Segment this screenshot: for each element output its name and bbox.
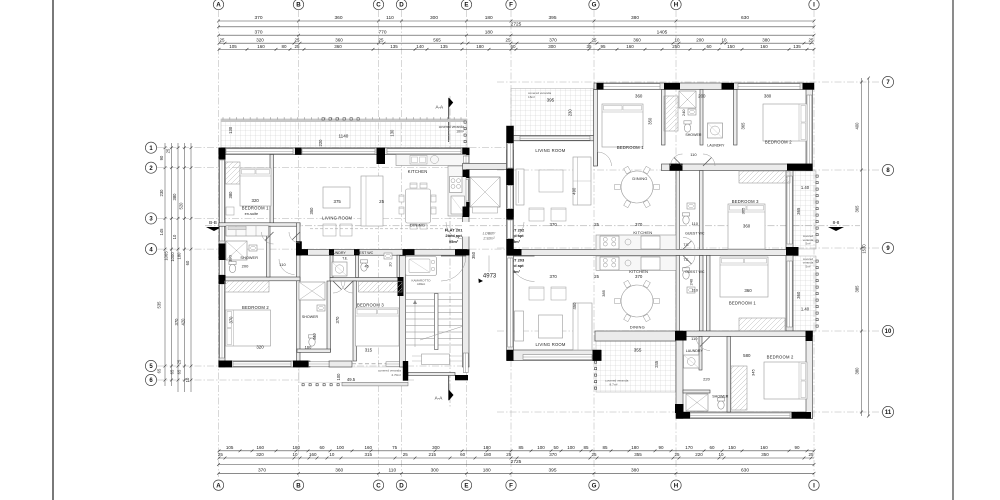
svg-text:35: 35 — [586, 44, 592, 49]
svg-text:60: 60 — [706, 44, 712, 49]
svg-text:360: 360 — [635, 93, 643, 98]
svg-text:360: 360 — [633, 37, 641, 42]
svg-text:LOBBY: LOBBY — [483, 232, 496, 236]
svg-text:BEDROOM 2: BEDROOM 2 — [242, 305, 269, 310]
svg-text:180: 180 — [631, 445, 639, 450]
svg-text:100: 100 — [537, 445, 545, 450]
svg-text:395: 395 — [548, 15, 556, 21]
svg-text:LIVING ROOM: LIVING ROOM — [535, 148, 565, 153]
svg-text:130: 130 — [228, 126, 233, 134]
svg-text:GUEST WC: GUEST WC — [685, 270, 705, 274]
svg-text:230: 230 — [159, 189, 164, 197]
svg-text:170: 170 — [685, 445, 693, 450]
svg-text:95m²: 95m² — [449, 239, 459, 244]
svg-text:370: 370 — [549, 37, 557, 42]
svg-text:90: 90 — [159, 155, 164, 160]
svg-text:380: 380 — [228, 191, 233, 199]
svg-text:A-A: A-A — [435, 104, 444, 109]
svg-text:H: H — [674, 482, 679, 489]
svg-text:300: 300 — [432, 445, 440, 450]
svg-text:245: 245 — [654, 360, 659, 368]
svg-text:565: 565 — [433, 37, 441, 42]
svg-text:SHOWER: SHOWER — [302, 315, 319, 319]
svg-text:18m²: 18m² — [456, 129, 465, 133]
svg-text:520: 520 — [179, 202, 184, 210]
svg-text:100: 100 — [567, 445, 575, 450]
svg-text:DINING: DINING — [632, 176, 647, 181]
svg-text:25: 25 — [294, 44, 300, 49]
svg-text:SHOWER: SHOWER — [685, 133, 702, 137]
svg-text:360: 360 — [334, 15, 342, 21]
svg-text:365: 365 — [741, 122, 746, 130]
svg-text:DINING: DINING — [410, 222, 425, 227]
svg-text:1140: 1140 — [338, 134, 348, 139]
svg-text:D: D — [399, 2, 404, 9]
svg-text:150: 150 — [728, 445, 736, 450]
svg-text:380: 380 — [764, 93, 772, 98]
svg-text:95: 95 — [600, 44, 606, 49]
svg-text:25: 25 — [674, 452, 680, 457]
svg-text:16m²: 16m² — [528, 95, 535, 99]
svg-text:360: 360 — [335, 467, 343, 473]
svg-text:350: 350 — [309, 207, 314, 215]
svg-text:580: 580 — [743, 353, 751, 358]
svg-text:315: 315 — [365, 348, 373, 353]
svg-text:145: 145 — [159, 228, 164, 236]
svg-text:25: 25 — [591, 37, 597, 42]
svg-text:200: 200 — [698, 93, 706, 98]
svg-text:GUEST WC: GUEST WC — [354, 251, 374, 255]
svg-text:E: E — [464, 482, 468, 489]
svg-text:SHOWER: SHOWER — [240, 256, 258, 260]
svg-text:BEDROOM 1: BEDROOM 1 — [729, 301, 756, 306]
svg-text:360: 360 — [796, 291, 801, 299]
svg-text:220: 220 — [703, 376, 710, 381]
svg-text:200: 200 — [242, 264, 249, 269]
svg-text:8-8: 8-8 — [833, 220, 840, 225]
svg-text:350: 350 — [647, 117, 652, 125]
svg-text:370: 370 — [254, 29, 262, 35]
svg-text:10: 10 — [674, 37, 680, 42]
svg-text:110: 110 — [692, 221, 699, 226]
svg-text:160: 160 — [257, 445, 265, 450]
svg-text:10: 10 — [292, 452, 298, 457]
svg-text:1000: 1000 — [170, 252, 175, 262]
svg-text:130: 130 — [389, 129, 394, 137]
svg-text:110: 110 — [279, 262, 286, 267]
svg-text:350: 350 — [761, 452, 769, 457]
svg-text:I: I — [813, 2, 815, 9]
svg-text:85: 85 — [583, 445, 589, 450]
svg-text:KITCHEN: KITCHEN — [408, 169, 428, 174]
svg-text:360: 360 — [743, 224, 751, 229]
svg-text:380: 380 — [631, 15, 639, 21]
svg-text:20: 20 — [389, 262, 393, 266]
svg-text:250: 250 — [672, 44, 680, 49]
svg-text:2bed apt: 2bed apt — [445, 233, 462, 238]
svg-text:85: 85 — [602, 445, 608, 450]
svg-text:5m²: 5m² — [806, 242, 811, 246]
svg-text:105: 105 — [229, 44, 237, 49]
svg-text:380: 380 — [855, 367, 860, 375]
svg-text:10: 10 — [721, 37, 727, 42]
svg-text:365: 365 — [796, 207, 801, 215]
svg-text:25: 25 — [591, 452, 597, 457]
svg-text:C: C — [376, 2, 381, 9]
svg-text:45: 45 — [364, 265, 368, 269]
svg-text:345: 345 — [751, 368, 756, 375]
svg-text:180: 180 — [293, 445, 301, 450]
svg-text:BEDROOM 1: BEDROOM 1 — [242, 205, 269, 210]
svg-text:90: 90 — [794, 445, 800, 450]
svg-text:630: 630 — [741, 15, 749, 21]
svg-text:160: 160 — [364, 445, 372, 450]
svg-text:G: G — [592, 482, 597, 489]
svg-text:180: 180 — [483, 467, 491, 473]
svg-text:49.5: 49.5 — [347, 377, 356, 382]
svg-text:BEDROOM 2: BEDROOM 2 — [765, 140, 792, 145]
svg-text:25: 25 — [294, 37, 300, 42]
svg-text:395: 395 — [548, 467, 556, 473]
svg-text:355: 355 — [634, 347, 642, 352]
svg-text:370: 370 — [635, 274, 643, 279]
svg-text:BEDROOM 3: BEDROOM 3 — [357, 303, 384, 308]
svg-text:covered veranda: covered veranda — [439, 125, 464, 129]
svg-text:535: 535 — [157, 301, 162, 309]
svg-text:105: 105 — [226, 445, 234, 450]
svg-text:D: D — [399, 482, 404, 489]
svg-text:220: 220 — [318, 139, 323, 147]
svg-text:100: 100 — [336, 373, 341, 381]
svg-text:25: 25 — [808, 452, 814, 457]
svg-text:DINING: DINING — [630, 324, 645, 329]
svg-text:A: A — [216, 2, 221, 9]
svg-text:230: 230 — [567, 109, 572, 117]
svg-text:4.70m²: 4.70m² — [391, 373, 401, 377]
svg-text:4973: 4973 — [483, 274, 497, 280]
svg-text:370: 370 — [549, 452, 557, 457]
svg-text:E: E — [464, 2, 468, 9]
svg-text:H: H — [674, 2, 679, 9]
svg-text:10: 10 — [172, 234, 177, 239]
svg-text:180: 180 — [228, 254, 233, 261]
svg-text:1530: 1530 — [862, 244, 867, 254]
svg-text:160: 160 — [309, 452, 317, 457]
svg-text:1405: 1405 — [657, 29, 668, 35]
svg-text:F: F — [509, 482, 513, 489]
svg-text:60: 60 — [709, 445, 715, 450]
svg-text:320: 320 — [252, 198, 260, 203]
svg-text:25: 25 — [808, 37, 814, 42]
svg-text:350: 350 — [471, 251, 476, 259]
svg-text:160: 160 — [760, 44, 768, 49]
svg-text:85: 85 — [518, 445, 524, 450]
svg-text:90: 90 — [658, 445, 664, 450]
svg-text:1.40: 1.40 — [801, 185, 810, 190]
svg-text:215: 215 — [428, 452, 436, 457]
svg-text:490: 490 — [572, 187, 577, 195]
svg-text:en-suite: en-suite — [245, 212, 259, 216]
svg-text:FLAT 201: FLAT 201 — [445, 228, 463, 233]
svg-text:150: 150 — [727, 44, 735, 49]
svg-text:300: 300 — [548, 44, 556, 49]
svg-text:BEDROOM 1: BEDROOM 1 — [617, 145, 644, 150]
svg-text:360: 360 — [334, 44, 342, 49]
svg-text:315: 315 — [364, 452, 372, 457]
svg-text:180: 180 — [484, 452, 492, 457]
svg-text:380: 380 — [762, 37, 770, 42]
svg-text:F: F — [509, 2, 513, 9]
svg-text:10: 10 — [885, 329, 892, 335]
svg-text:135: 135 — [793, 44, 801, 49]
svg-text:25: 25 — [378, 37, 384, 42]
svg-text:covered veranda: covered veranda — [378, 369, 401, 373]
svg-text:B-B: B-B — [209, 220, 217, 225]
svg-text:320: 320 — [256, 452, 264, 457]
svg-text:11: 11 — [885, 410, 892, 416]
svg-text:370: 370 — [228, 316, 233, 324]
svg-text:8.7m²: 8.7m² — [610, 383, 618, 387]
svg-text:25: 25 — [379, 199, 384, 204]
svg-text:5m²: 5m² — [806, 264, 811, 268]
svg-text:300: 300 — [430, 15, 438, 21]
svg-text:320: 320 — [256, 345, 264, 350]
svg-text:10: 10 — [718, 452, 724, 457]
svg-text:I: I — [813, 482, 815, 489]
svg-text:25: 25 — [506, 452, 512, 457]
svg-text:BEDROOM 2: BEDROOM 2 — [767, 354, 794, 359]
svg-text:A: A — [216, 482, 221, 489]
svg-text:60: 60 — [319, 445, 325, 450]
svg-text:B: B — [296, 2, 301, 9]
svg-text:2725: 2725 — [511, 21, 522, 27]
svg-text:400: 400 — [855, 122, 860, 130]
svg-text:395: 395 — [547, 98, 555, 103]
svg-text:360: 360 — [335, 37, 343, 42]
svg-text:630: 630 — [741, 467, 749, 473]
svg-text:370: 370 — [550, 222, 558, 227]
svg-text:B: B — [296, 482, 301, 489]
svg-text:110: 110 — [690, 152, 697, 157]
svg-text:385: 385 — [601, 289, 606, 296]
svg-text:200: 200 — [696, 37, 704, 42]
svg-text:AREA: AREA — [417, 282, 425, 286]
svg-text:140: 140 — [416, 44, 424, 49]
svg-text:80: 80 — [281, 44, 287, 49]
svg-text:2725: 2725 — [511, 459, 522, 465]
svg-text:110: 110 — [692, 287, 699, 292]
svg-text:25: 25 — [594, 222, 599, 227]
svg-text:420: 420 — [181, 318, 186, 326]
svg-text:135: 135 — [390, 44, 398, 49]
svg-text:T.E.: T.E. — [342, 257, 348, 261]
svg-text:365: 365 — [855, 205, 860, 213]
svg-text:50: 50 — [553, 445, 559, 450]
svg-text:375: 375 — [334, 199, 342, 204]
svg-text:385: 385 — [855, 285, 860, 293]
svg-text:160: 160 — [257, 44, 265, 49]
svg-text:GUEST WC: GUEST WC — [685, 232, 705, 236]
svg-text:25: 25 — [403, 452, 409, 457]
svg-text:240: 240 — [689, 278, 694, 285]
svg-text:65: 65 — [177, 369, 182, 374]
svg-text:180: 180 — [476, 44, 484, 49]
svg-text:180: 180 — [485, 29, 493, 35]
svg-text:65: 65 — [157, 368, 162, 373]
svg-text:365: 365 — [741, 207, 746, 214]
svg-text:100: 100 — [336, 445, 344, 450]
svg-text:370: 370 — [550, 274, 558, 279]
svg-text:180: 180 — [483, 445, 491, 450]
svg-text:320: 320 — [256, 37, 264, 42]
svg-text:2.92m²: 2.92m² — [482, 237, 495, 241]
svg-text:LAUNDRY: LAUNDRY — [686, 349, 704, 353]
svg-text:240: 240 — [681, 109, 686, 116]
svg-text:355: 355 — [634, 452, 642, 457]
svg-text:BEDROOM 3: BEDROOM 3 — [732, 199, 759, 204]
svg-text:LIVING ROOM: LIVING ROOM — [322, 216, 352, 221]
svg-text:380: 380 — [172, 193, 177, 201]
svg-text:C: C — [376, 482, 381, 489]
svg-text:25: 25 — [218, 452, 224, 457]
svg-text:380: 380 — [631, 467, 639, 473]
svg-text:360: 360 — [744, 288, 752, 293]
svg-text:75: 75 — [392, 445, 398, 450]
svg-text:25: 25 — [177, 359, 182, 364]
svg-text:60: 60 — [185, 260, 190, 265]
svg-text:SHOWER: SHOWER — [712, 394, 729, 398]
svg-text:300: 300 — [431, 467, 439, 473]
svg-text:25: 25 — [219, 37, 225, 42]
svg-text:1065: 1065 — [164, 251, 169, 261]
svg-text:160: 160 — [305, 345, 312, 350]
svg-text:60: 60 — [460, 452, 466, 457]
svg-text:110: 110 — [386, 15, 394, 21]
svg-text:770: 770 — [378, 29, 386, 35]
svg-text:25: 25 — [505, 37, 511, 42]
svg-text:LAUNDRY: LAUNDRY — [329, 251, 347, 255]
svg-text:25: 25 — [594, 274, 599, 279]
svg-text:370: 370 — [258, 467, 266, 473]
svg-text:135: 135 — [440, 44, 448, 49]
svg-text:370: 370 — [635, 222, 643, 227]
svg-text:65: 65 — [170, 369, 175, 374]
svg-text:220: 220 — [695, 452, 703, 457]
svg-text:A-A: A-A — [435, 396, 444, 401]
svg-text:LAUNDRY: LAUNDRY — [707, 143, 725, 147]
svg-text:370: 370 — [254, 15, 262, 21]
svg-text:1.40: 1.40 — [801, 307, 810, 312]
svg-text:LIVING ROOM: LIVING ROOM — [535, 342, 565, 347]
svg-text:25: 25 — [166, 148, 171, 153]
svg-text:180: 180 — [177, 252, 182, 260]
svg-text:110: 110 — [691, 336, 698, 341]
svg-text:240: 240 — [312, 332, 317, 339]
svg-text:60: 60 — [510, 44, 516, 49]
svg-text:G: G — [592, 2, 597, 9]
svg-text:10: 10 — [185, 377, 190, 382]
svg-text:370: 370 — [174, 318, 179, 326]
svg-text:KITCHEN: KITCHEN — [633, 230, 652, 235]
svg-text:370: 370 — [335, 316, 340, 324]
svg-text:180: 180 — [485, 15, 493, 21]
svg-text:160: 160 — [626, 44, 634, 49]
svg-text:160: 160 — [760, 445, 768, 450]
svg-text:450: 450 — [572, 302, 577, 310]
svg-text:110: 110 — [388, 467, 396, 473]
svg-text:10: 10 — [329, 452, 335, 457]
